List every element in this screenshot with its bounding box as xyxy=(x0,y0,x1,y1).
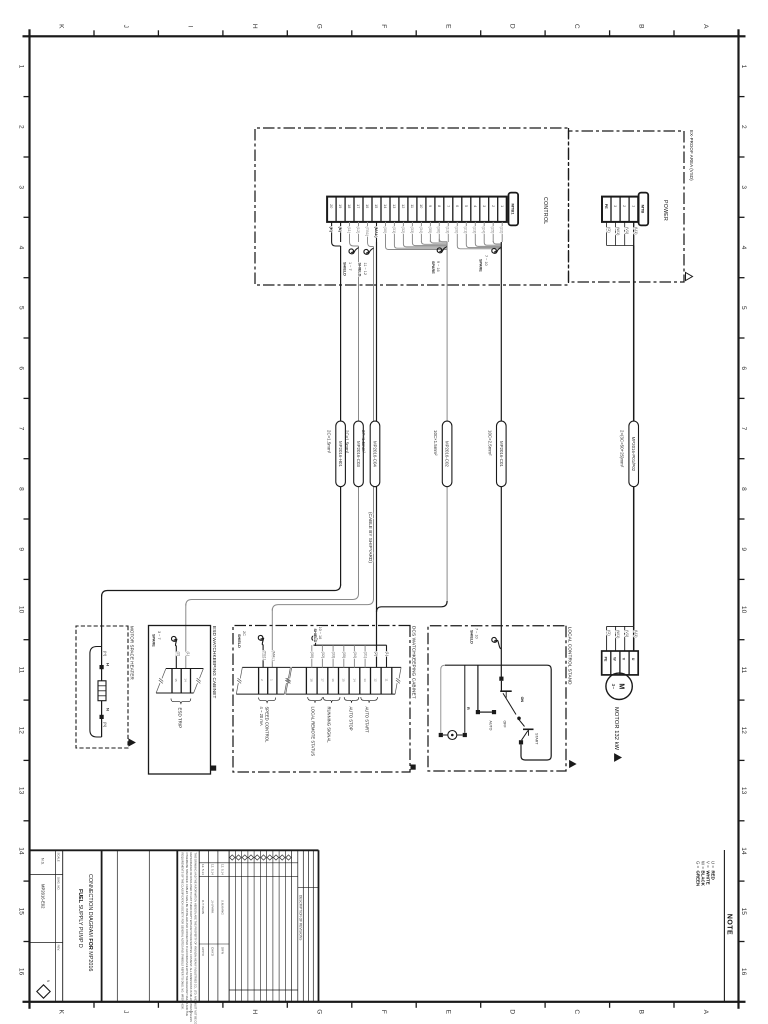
svg-text:11 ~ 12: 11 ~ 12 xyxy=(363,263,367,276)
svg-text:(W1): (W1) xyxy=(616,227,621,236)
svg-text:2×(3C×50+25)mm²: 2×(3C×50+25)mm² xyxy=(620,430,625,468)
svg-text:8: 8 xyxy=(18,487,25,491)
svg-text:(1): (1) xyxy=(186,652,190,657)
svg-text:AUTO START: AUTO START xyxy=(365,707,370,734)
svg-text:PE: PE xyxy=(603,657,607,662)
svg-text:10C×2.5mm²: 10C×2.5mm² xyxy=(487,430,492,456)
svg-text:CONNECTION DIAGRAM FOR MP2016: CONNECTION DIAGRAM FOR MP2016 xyxy=(87,874,93,971)
svg-text:(H): (H) xyxy=(103,651,107,657)
svg-text:4 ~ 20 mA: 4 ~ 20 mA xyxy=(259,707,264,726)
svg-text:13: 13 xyxy=(740,787,747,795)
svg-text:RUNNING SIGNAL: RUNNING SIGNAL xyxy=(327,707,332,744)
svg-text:DR'N: DR'N xyxy=(220,947,224,954)
svg-text:7 ~ 10: 7 ~ 10 xyxy=(484,255,488,266)
svg-text:5: 5 xyxy=(18,306,25,310)
svg-text:G: G xyxy=(315,1009,322,1014)
svg-text:START: START xyxy=(534,733,538,745)
svg-text:(CABLE BY SHIPYARD): (CABLE BY SHIPYARD) xyxy=(368,512,373,563)
svg-text:12: 12 xyxy=(401,204,405,208)
svg-text:2: 2 xyxy=(18,125,25,129)
svg-text:14: 14 xyxy=(740,847,747,855)
svg-text:1: 1 xyxy=(500,205,504,207)
svg-text:LOCAL REMOTE STATUS: LOCAL REMOTE STATUS xyxy=(311,707,316,757)
svg-text:6: 6 xyxy=(455,205,459,207)
svg-text:REQUIREMENTS OF THE CLASSIFICA: REQUIREMENTS OF THE CLASSIFICATION SOCIE… xyxy=(181,853,185,1010)
svg-text:MTB: MTB xyxy=(641,205,646,214)
svg-text:11: 11 xyxy=(18,666,25,673)
svg-text:SPARE: SPARE xyxy=(431,261,435,274)
svg-text:R: R xyxy=(466,707,470,710)
svg-text:7: 7 xyxy=(740,427,747,431)
svg-text:11: 11 xyxy=(384,678,388,681)
svg-text:(32): (32) xyxy=(401,227,406,235)
svg-text:DWG. NO.: DWG. NO. xyxy=(56,877,60,891)
svg-text:DESCRIPTION OF REVISIONS: DESCRIPTION OF REVISIONS xyxy=(298,895,302,940)
svg-text:(25): (25) xyxy=(491,227,496,235)
svg-text:(MAL): (MAL) xyxy=(272,651,276,662)
svg-text:2: 2 xyxy=(622,205,626,207)
svg-text:(32): (32) xyxy=(321,652,325,659)
svg-text:15: 15 xyxy=(342,678,346,682)
svg-text:EX-PROOF AREA (VSD): EX-PROOF AREA (VSD) xyxy=(689,130,694,181)
svg-text:MP2016-P01/P02: MP2016-P01/P02 xyxy=(631,437,636,472)
svg-text:1: 1 xyxy=(740,65,747,69)
svg-text:SCALE: SCALE xyxy=(56,853,60,862)
svg-text:(G): (G) xyxy=(607,227,612,233)
svg-text:(21): (21) xyxy=(464,227,469,235)
svg-text:D.Y.YEON: D.Y.YEON xyxy=(201,900,205,914)
svg-text:5: 5 xyxy=(464,205,468,207)
svg-text:12: 12 xyxy=(374,678,378,682)
svg-text:12. 5.14: 12. 5.14 xyxy=(201,864,205,875)
svg-text:LOCAL CONTROL STAND: LOCAL CONTROL STAND xyxy=(567,627,572,685)
svg-text:(N): (N) xyxy=(338,227,343,233)
svg-text:F: F xyxy=(380,1010,387,1014)
svg-text:(V1): (V1) xyxy=(625,630,630,638)
svg-text:4: 4 xyxy=(18,246,25,250)
svg-text:3~: 3~ xyxy=(611,684,616,690)
svg-text:(TB1): (TB1) xyxy=(263,651,267,661)
svg-text:SPARE: SPARE xyxy=(152,634,156,647)
svg-text:2P×1.5mm²: 2P×1.5mm² xyxy=(361,430,366,453)
svg-text:12: 12 xyxy=(18,727,25,735)
svg-text:3 ~ 7: 3 ~ 7 xyxy=(157,631,161,640)
svg-text:J.H.PARK: J.H.PARK xyxy=(211,900,215,913)
svg-text:1: 1 xyxy=(18,65,25,69)
svg-text:3: 3 xyxy=(482,205,486,207)
svg-text:NOTE: NOTE xyxy=(726,914,733,935)
svg-text:ESD TRIP: ESD TRIP xyxy=(178,708,183,729)
svg-text:M: M xyxy=(618,683,625,689)
svg-text:SPEED CONTROL: SPEED CONTROL xyxy=(265,707,270,744)
svg-text:8: 8 xyxy=(437,205,441,207)
svg-text:SHIELD: SHIELD xyxy=(237,634,241,648)
svg-text:(U1): (U1) xyxy=(634,227,639,235)
svg-text:(11): (11) xyxy=(347,227,352,234)
svg-text:MP2016-C01: MP2016-C01 xyxy=(499,441,504,467)
svg-text:MP2016-H01: MP2016-H01 xyxy=(338,441,343,467)
svg-text:6: 6 xyxy=(740,366,747,370)
svg-text:17: 17 xyxy=(356,204,360,208)
svg-text:15: 15 xyxy=(740,908,747,916)
svg-text:7: 7 xyxy=(18,427,25,431)
svg-text:15: 15 xyxy=(374,204,378,208)
svg-text:MOTOR SPACE HEATER: MOTOR SPACE HEATER xyxy=(129,626,134,680)
svg-text:(1): (1) xyxy=(385,652,389,657)
svg-text:14: 14 xyxy=(352,678,356,682)
svg-text:A: A xyxy=(702,1010,709,1015)
svg-text:C: C xyxy=(573,1009,580,1014)
svg-text:REV.: REV. xyxy=(56,945,60,951)
svg-text:POWER: POWER xyxy=(662,200,668,221)
svg-text:ESD WATCHKEEPING CABINET: ESD WATCHKEEPING CABINET xyxy=(212,626,217,698)
svg-text:THIS DRAWING AND THE INFORMATI: THIS DRAWING AND THE INFORMATION HEREON … xyxy=(193,853,197,1024)
svg-text:3: 3 xyxy=(18,185,25,189)
svg-text:(30): (30) xyxy=(310,652,314,659)
svg-text:A: A xyxy=(702,24,709,29)
svg-text:SHIELD: SHIELD xyxy=(313,629,317,643)
svg-text:13: 13 xyxy=(18,787,25,795)
svg-text:MP2016-E02: MP2016-E02 xyxy=(41,884,46,909)
svg-text:(TB1): (TB1) xyxy=(365,227,370,237)
svg-text:(22): (22) xyxy=(500,227,505,235)
svg-text:(13): (13) xyxy=(446,227,451,235)
svg-text:3: 3 xyxy=(613,205,617,207)
svg-text:D: D xyxy=(509,24,516,29)
svg-text:C: C xyxy=(573,24,580,29)
svg-text:4: 4 xyxy=(473,205,477,207)
svg-text:2: 2 xyxy=(740,125,747,129)
svg-text:9: 9 xyxy=(18,547,25,551)
svg-text:9: 9 xyxy=(428,205,432,207)
svg-text:15: 15 xyxy=(18,908,25,916)
svg-text:2: 2 xyxy=(491,205,495,207)
svg-text:W: W xyxy=(613,657,617,661)
svg-text:18: 18 xyxy=(347,204,351,208)
svg-text:16: 16 xyxy=(740,968,747,976)
svg-text:(31): (31) xyxy=(392,227,397,235)
svg-text:B: B xyxy=(638,24,645,29)
svg-text:17: 17 xyxy=(320,678,324,682)
svg-text:16: 16 xyxy=(365,204,369,208)
svg-text:REPRODUCED OR DISCLOSED TO ANY: REPRODUCED OR DISCLOSED TO ANY THIRD PAR… xyxy=(189,853,193,1023)
svg-text:2C: 2C xyxy=(242,631,246,636)
svg-text:7 ~ 10: 7 ~ 10 xyxy=(475,628,479,639)
svg-text:(2): (2) xyxy=(177,652,181,657)
svg-text:AUTO STOP: AUTO STOP xyxy=(349,707,354,731)
svg-text:(24): (24) xyxy=(482,227,487,235)
svg-text:2C×1.5mm²: 2C×1.5mm² xyxy=(327,430,332,454)
svg-text:18: 18 xyxy=(310,678,314,682)
svg-text:GREEN: GREEN xyxy=(696,871,701,887)
svg-text:MP2016-C03: MP2016-C03 xyxy=(356,441,361,467)
svg-text:(V1): (V1) xyxy=(625,227,630,235)
svg-text:CONTROL: CONTROL xyxy=(542,197,548,224)
svg-text:(33): (33) xyxy=(332,652,336,659)
svg-text:2C×1.5mm²: 2C×1.5mm² xyxy=(345,430,350,454)
svg-text:J: J xyxy=(122,25,129,28)
svg-text:G: G xyxy=(315,24,322,29)
svg-text:15: 15 xyxy=(174,678,178,682)
svg-text:14: 14 xyxy=(183,678,187,682)
svg-text:20: 20 xyxy=(329,204,333,208)
svg-text:11: 11 xyxy=(410,204,414,208)
svg-text:10: 10 xyxy=(18,606,25,614)
svg-text:14: 14 xyxy=(383,204,387,208)
svg-text:(U1): (U1) xyxy=(634,630,639,638)
svg-text:12. 5.14: 12. 5.14 xyxy=(220,864,224,875)
svg-text:PE: PE xyxy=(604,204,608,209)
svg-text:K: K xyxy=(58,24,65,29)
svg-text:K: K xyxy=(58,1010,65,1015)
svg-text:MP2016-C02: MP2016-C02 xyxy=(445,441,450,467)
svg-text:S.M.KANG: S.M.KANG xyxy=(220,900,224,915)
svg-text:D: D xyxy=(509,1009,516,1014)
svg-text:(H): (H) xyxy=(329,227,334,233)
svg-text:G =: G = xyxy=(696,861,701,869)
svg-text:19: 19 xyxy=(338,204,342,208)
svg-text:8: 8 xyxy=(740,487,747,491)
svg-text:(G): (G) xyxy=(607,630,612,636)
svg-text:ON: ON xyxy=(520,697,524,703)
svg-text:(23): (23) xyxy=(473,227,478,235)
svg-text:MTB1: MTB1 xyxy=(511,204,516,216)
svg-text:(20): (20) xyxy=(455,227,460,235)
svg-text:9: 9 xyxy=(740,547,747,551)
svg-text:9 ~ 16: 9 ~ 16 xyxy=(436,261,440,272)
svg-text:1: 1 xyxy=(631,205,635,207)
svg-text:H: H xyxy=(251,24,258,29)
svg-text:OFF: OFF xyxy=(502,721,506,729)
svg-text:(MAL): (MAL) xyxy=(374,227,379,239)
svg-text:10 ~ 16: 10 ~ 16 xyxy=(318,627,322,640)
svg-text:DCS WATCHKEEPING CABINET: DCS WATCHKEEPING CABINET xyxy=(411,626,416,699)
svg-text:12. 5.14: 12. 5.14 xyxy=(211,864,215,875)
svg-text:12: 12 xyxy=(740,727,747,735)
svg-text:APP'D: APP'D xyxy=(201,947,205,957)
svg-text:SHIELD: SHIELD xyxy=(343,262,347,276)
svg-text:SHIELD: SHIELD xyxy=(358,263,362,277)
svg-text:H: H xyxy=(106,663,111,666)
svg-text:(W1): (W1) xyxy=(616,630,621,639)
svg-text:(34): (34) xyxy=(353,652,357,659)
svg-text:4: 4 xyxy=(740,246,747,250)
svg-text:13: 13 xyxy=(392,204,396,208)
svg-text:16: 16 xyxy=(331,678,335,682)
svg-text:14: 14 xyxy=(18,847,25,855)
svg-text:MOTOR 132 kW: MOTOR 132 kW xyxy=(613,707,619,751)
svg-text:SPARE: SPARE xyxy=(479,259,483,272)
svg-text:(33): (33) xyxy=(410,227,415,235)
svg-text:10: 10 xyxy=(740,606,747,614)
svg-text:(31): (31) xyxy=(364,652,368,659)
svg-text:U: U xyxy=(631,658,635,661)
svg-text:OTHERWISE SPECIFIED. CABLES SH: OTHERWISE SPECIFIED. CABLES SHALL BE INS… xyxy=(185,853,189,1017)
svg-text:J: J xyxy=(122,1010,129,1013)
svg-text:7: 7 xyxy=(446,205,450,207)
svg-text:10C×1.5mm²: 10C×1.5mm² xyxy=(433,430,438,456)
svg-text:(35): (35) xyxy=(428,227,433,235)
svg-text:11: 11 xyxy=(740,666,747,673)
svg-text:3: 3 xyxy=(740,185,747,189)
svg-text:(2): (2) xyxy=(374,652,378,657)
svg-text:10: 10 xyxy=(419,204,423,208)
svg-text:F: F xyxy=(380,24,387,28)
svg-text:5: 5 xyxy=(740,306,747,310)
svg-text:B: B xyxy=(638,1010,645,1015)
svg-text:SHIELD: SHIELD xyxy=(469,630,473,644)
svg-text:(12): (12) xyxy=(356,227,361,235)
svg-text:(36): (36) xyxy=(437,227,442,235)
svg-text:6: 6 xyxy=(18,366,25,370)
svg-text:13: 13 xyxy=(363,678,367,682)
svg-text:1 ~ 7: 1 ~ 7 xyxy=(348,262,352,271)
svg-text:(35): (35) xyxy=(342,652,346,659)
svg-text:16: 16 xyxy=(18,968,25,976)
svg-text:N: N xyxy=(106,708,111,711)
svg-text:N.S.: N.S. xyxy=(41,858,45,865)
svg-text:H: H xyxy=(251,1009,258,1014)
svg-text:E: E xyxy=(444,24,451,29)
svg-text:AUTO: AUTO xyxy=(488,721,492,731)
svg-text:MP2016-C04: MP2016-C04 xyxy=(373,441,378,467)
svg-text:I: I xyxy=(186,25,193,27)
svg-text:FUEL SUPPLY PUMP D: FUEL SUPPLY PUMP D xyxy=(77,889,83,948)
svg-text:E: E xyxy=(444,1010,451,1015)
svg-text:CHK'D: CHK'D xyxy=(211,947,215,957)
svg-text:(N): (N) xyxy=(103,722,107,728)
svg-text:(34): (34) xyxy=(419,227,424,235)
svg-text:(30): (30) xyxy=(383,227,388,235)
